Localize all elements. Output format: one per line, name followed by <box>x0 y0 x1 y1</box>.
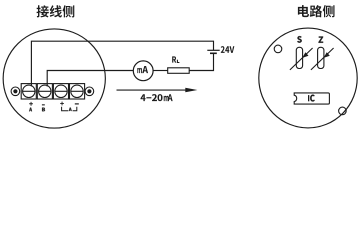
trimmer potentiometer Z (zero) <box>311 37 334 70</box>
label: circuit side (电路侧) <box>298 5 335 17</box>
current direction arrow 4-20mA <box>117 88 198 101</box>
wire: terminal 2 to mA meter (lower rail) <box>47 71 133 87</box>
label + A (terminal 1) <box>29 102 33 111</box>
label test meter bracket +A- (terminals 3-4) <box>60 102 79 111</box>
wire: resistor to 24V supply <box>189 54 213 71</box>
label - B (terminal 2) <box>42 104 45 111</box>
terminal block (4 cells) <box>21 84 84 99</box>
left mounting hole <box>11 87 20 96</box>
enclosure circle (circuit side) <box>259 28 357 128</box>
wire: meter to resistor RL <box>153 70 168 72</box>
battery 24V <box>207 46 234 54</box>
trimmer potentiometer S (span) <box>290 36 313 70</box>
IC chip outline <box>294 93 329 104</box>
label: terminal side (接线侧) <box>37 5 75 17</box>
resistor RL (load) <box>168 56 190 73</box>
enclosure circle (terminal side) <box>3 29 105 128</box>
wire: terminal 1 to 24V supply (top rail) <box>31 41 213 86</box>
case hole top-left <box>274 45 282 53</box>
milliammeter mA <box>133 61 153 81</box>
case hole bottom-right <box>339 107 347 115</box>
right mounting hole <box>85 87 94 96</box>
terminal screws x4 <box>23 85 84 97</box>
